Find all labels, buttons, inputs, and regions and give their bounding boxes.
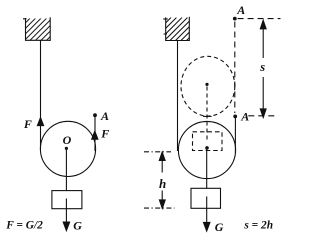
svg-text:O: O — [63, 133, 72, 147]
weight block raised position (dashed) — [193, 132, 223, 151]
wire: dashed rope path from A down to A' — [234, 22, 236, 114]
wire: right rope solid from A' down to pulley — [234, 117, 236, 154]
force arrow G (right weight vector) — [204, 196, 210, 231]
weight block (left) — [52, 191, 82, 209]
extension line at A' level (dashed) — [248, 115, 278, 117]
wire: right rope from point A down to pulley tangent — [94, 116, 96, 152]
wire: left rope from ceiling to pulley tangent — [40, 40, 42, 150]
svg-text:s = 2h: s = 2h — [243, 219, 273, 231]
wire: dashed center line from raised axle down — [206, 87, 208, 141]
svg-text:F: F — [100, 127, 109, 141]
extension line at A level (dashed) — [238, 18, 281, 20]
svg-text:A: A — [100, 109, 109, 123]
wire: rope from axle O down to weight — [65, 150, 67, 191]
wire: left rope (right diagram) ceiling to pulley — [177, 41, 179, 152]
svg-text:G: G — [73, 218, 82, 232]
svg-text:F = G/2: F = G/2 — [5, 220, 43, 232]
node A (upper right, rope end after pull) — [233, 17, 237, 21]
svg-text:h: h — [159, 176, 166, 191]
svg-text:s: s — [259, 60, 265, 74]
weight block (right) — [191, 188, 221, 208]
pulley circle (right, current position) — [178, 121, 235, 178]
node A (left diagram, rope end) — [93, 113, 97, 117]
fixed support (left ceiling block) — [8, 17, 69, 41]
node: axle dot (right pulley) — [205, 146, 209, 150]
dimension line top of h (dash-dot) — [144, 151, 171, 153]
dimension h (double arrow) — [159, 152, 165, 208]
pulley circle (raised position, dashed) — [181, 56, 235, 116]
tick at bottom of raised pulley — [203, 115, 212, 117]
svg-text:G: G — [215, 220, 224, 234]
node O (axle dot) — [65, 147, 68, 150]
dimension s (double arrow) — [260, 20, 266, 117]
svg-text:A: A — [240, 110, 249, 124]
fixed support (right ceiling block) — [148, 17, 210, 41]
node A (lower right, rope end now) — [233, 115, 237, 119]
pulley circle O (left) — [40, 121, 95, 176]
wire: rope from axle to weight (right) — [206, 149, 208, 188]
force arrow F (right rope) — [92, 131, 98, 139]
dimension line bottom of h (dash-dot) — [144, 207, 175, 209]
node: axle dot (raised pulley, dashed position) — [205, 83, 208, 86]
svg-text:A: A — [236, 3, 245, 17]
force arrow F (left rope) — [37, 118, 43, 126]
svg-text:F: F — [23, 117, 32, 131]
force arrow G (left weight vector) — [63, 199, 69, 231]
